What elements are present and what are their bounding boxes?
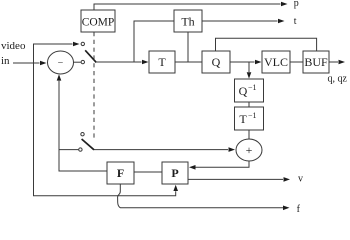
svg-text:−1: −1 <box>248 111 257 120</box>
wire Q output branch down to Q-inverse <box>247 62 252 79</box>
block Th <box>174 10 202 32</box>
svg-text:F: F <box>117 166 124 180</box>
wire switch S1 to T <box>96 60 149 65</box>
svg-text:v: v <box>298 173 303 184</box>
switch S1 lower contact <box>81 60 84 63</box>
wire T to Q <box>175 61 202 63</box>
svg-text:+: + <box>246 143 253 157</box>
wire F bottom with crossover jog to f output <box>118 184 290 210</box>
wire COMP to p output <box>94 2 288 10</box>
svg-text:T: T <box>239 112 247 126</box>
block Q <box>202 51 230 73</box>
wire VLC to BUF <box>290 61 303 63</box>
adder node <box>236 139 262 161</box>
svg-text:−: − <box>58 58 64 69</box>
wire F output feed to switch S2 <box>59 149 78 151</box>
svg-text:BUF: BUF <box>304 55 328 69</box>
wire F to P <box>134 171 162 173</box>
svg-text:Q: Q <box>212 55 221 69</box>
svg-text:p: p <box>294 0 299 9</box>
subtractor node <box>48 51 74 74</box>
svg-text:T: T <box>158 55 166 69</box>
svg-text:P: P <box>171 166 178 180</box>
switch S1 arm <box>85 50 96 62</box>
svg-text:Q: Q <box>239 84 248 98</box>
wire adder output to P <box>189 161 249 170</box>
wire Q to VLC <box>230 60 262 65</box>
svg-text:VLC: VLC <box>264 55 288 69</box>
svg-text:q, qz: q, qz <box>328 74 348 85</box>
switch S2 lower contact <box>79 148 82 151</box>
wire Th bottom to T-Q wire <box>187 32 189 62</box>
label video in <box>1 40 26 67</box>
block Q-inverse <box>235 79 264 102</box>
wire Th to t output <box>202 19 285 24</box>
switch S2 arm <box>82 139 94 150</box>
wire BUF feedback to Q top <box>216 38 317 51</box>
wire T-inverse to adder <box>248 130 250 139</box>
wire video-in branch down left side to P bottom <box>34 63 179 196</box>
block VLC <box>262 51 290 73</box>
wire video-in branch up to switch S1 upper contact <box>34 42 80 63</box>
block P <box>162 162 188 184</box>
wire P to v output <box>188 177 290 182</box>
wire Q-inverse to T-inverse <box>248 102 250 107</box>
wire video-in to subtractor <box>13 61 47 66</box>
wire subtractor output to switch S1 lower contact <box>73 61 81 63</box>
svg-text:in: in <box>1 55 10 67</box>
wire branch up to Th <box>134 21 174 62</box>
switch S1 upper contact <box>81 42 84 45</box>
dashed control line from COMP <box>93 32 95 138</box>
block T-inverse <box>235 107 264 130</box>
wire switch S2 to adder <box>94 147 235 152</box>
svg-text:t: t <box>294 16 297 27</box>
wire F output up to subtractor <box>57 74 107 171</box>
block F <box>107 162 134 184</box>
wire BUF to q,qz output <box>329 60 345 65</box>
block T <box>149 51 175 73</box>
svg-text:COMP: COMP <box>82 17 115 29</box>
svg-text:video: video <box>1 40 26 52</box>
svg-text:f: f <box>297 204 301 214</box>
block COMP <box>81 10 115 32</box>
svg-text:−1: −1 <box>248 83 257 92</box>
svg-text:Th: Th <box>181 15 194 29</box>
switch S2 upper contact <box>81 133 84 136</box>
block BUF <box>303 51 329 73</box>
